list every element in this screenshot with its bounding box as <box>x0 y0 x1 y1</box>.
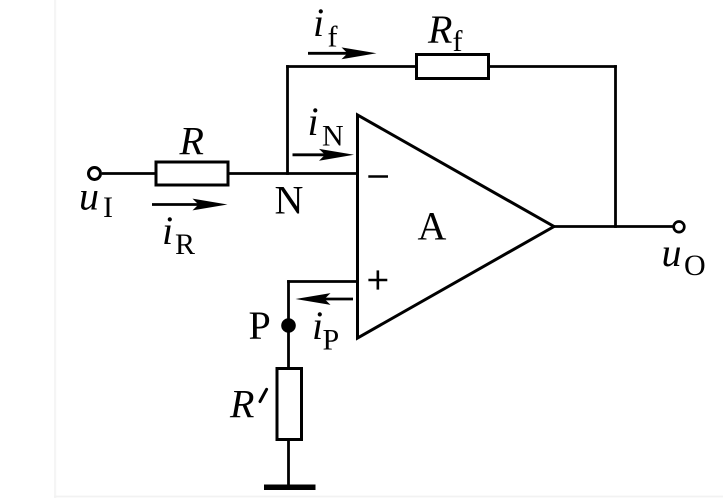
current arrow iR <box>152 199 228 211</box>
label iN <box>308 99 344 153</box>
wire: output horizontal <box>554 225 673 228</box>
svg-text:R: R <box>427 7 452 52</box>
svg-text:u: u <box>79 174 99 219</box>
resistor R' <box>277 369 302 440</box>
svg-text:f: f <box>328 21 338 54</box>
current arrow if <box>308 47 377 59</box>
label uO <box>662 230 706 282</box>
label uI <box>79 174 113 225</box>
resistor Rf <box>417 55 489 79</box>
label if <box>313 0 338 54</box>
resistor R <box>156 162 228 185</box>
label iP <box>312 303 339 357</box>
svg-text:u: u <box>662 230 682 275</box>
svg-text:I: I <box>103 191 113 224</box>
faint page rule vertical <box>54 0 56 498</box>
op-amp minus sign <box>368 175 388 178</box>
svg-text:A: A <box>418 204 447 249</box>
svg-text:P: P <box>249 303 271 348</box>
svg-text:R: R <box>179 119 204 164</box>
wire: P vertical <box>287 280 290 368</box>
ground <box>264 485 316 491</box>
svg-text:N: N <box>322 120 344 153</box>
svg-text:P: P <box>323 324 340 357</box>
svg-text:i: i <box>313 0 324 45</box>
node P junction dot <box>281 318 296 333</box>
svg-text:i: i <box>312 303 323 348</box>
label Rf <box>427 7 463 58</box>
svg-text:R: R <box>175 228 195 261</box>
faint page rule horizontal <box>54 496 723 498</box>
svg-text:O: O <box>684 249 706 282</box>
terminal uI <box>89 168 101 180</box>
wire: R' to ground <box>287 440 290 488</box>
op-amp plus sign <box>368 270 387 289</box>
svg-text:R: R <box>229 382 254 427</box>
svg-text:f: f <box>453 25 463 58</box>
current arrow iN <box>293 149 355 161</box>
svg-text:N: N <box>275 178 304 223</box>
wire: right feedback vertical <box>614 65 617 228</box>
svg-text:i: i <box>162 208 173 253</box>
wire: non-inverting input horizontal <box>287 280 359 283</box>
label R' <box>229 382 267 427</box>
wire: input horizontal to op-amp <box>102 172 359 175</box>
wire: left feedback vertical <box>286 65 289 175</box>
op-amp A <box>358 115 555 338</box>
svg-text:i: i <box>308 99 319 144</box>
wire: top feedback horizontal <box>286 65 617 68</box>
current arrow iP <box>296 293 354 305</box>
label iR <box>162 208 195 261</box>
terminal uO <box>674 222 685 233</box>
